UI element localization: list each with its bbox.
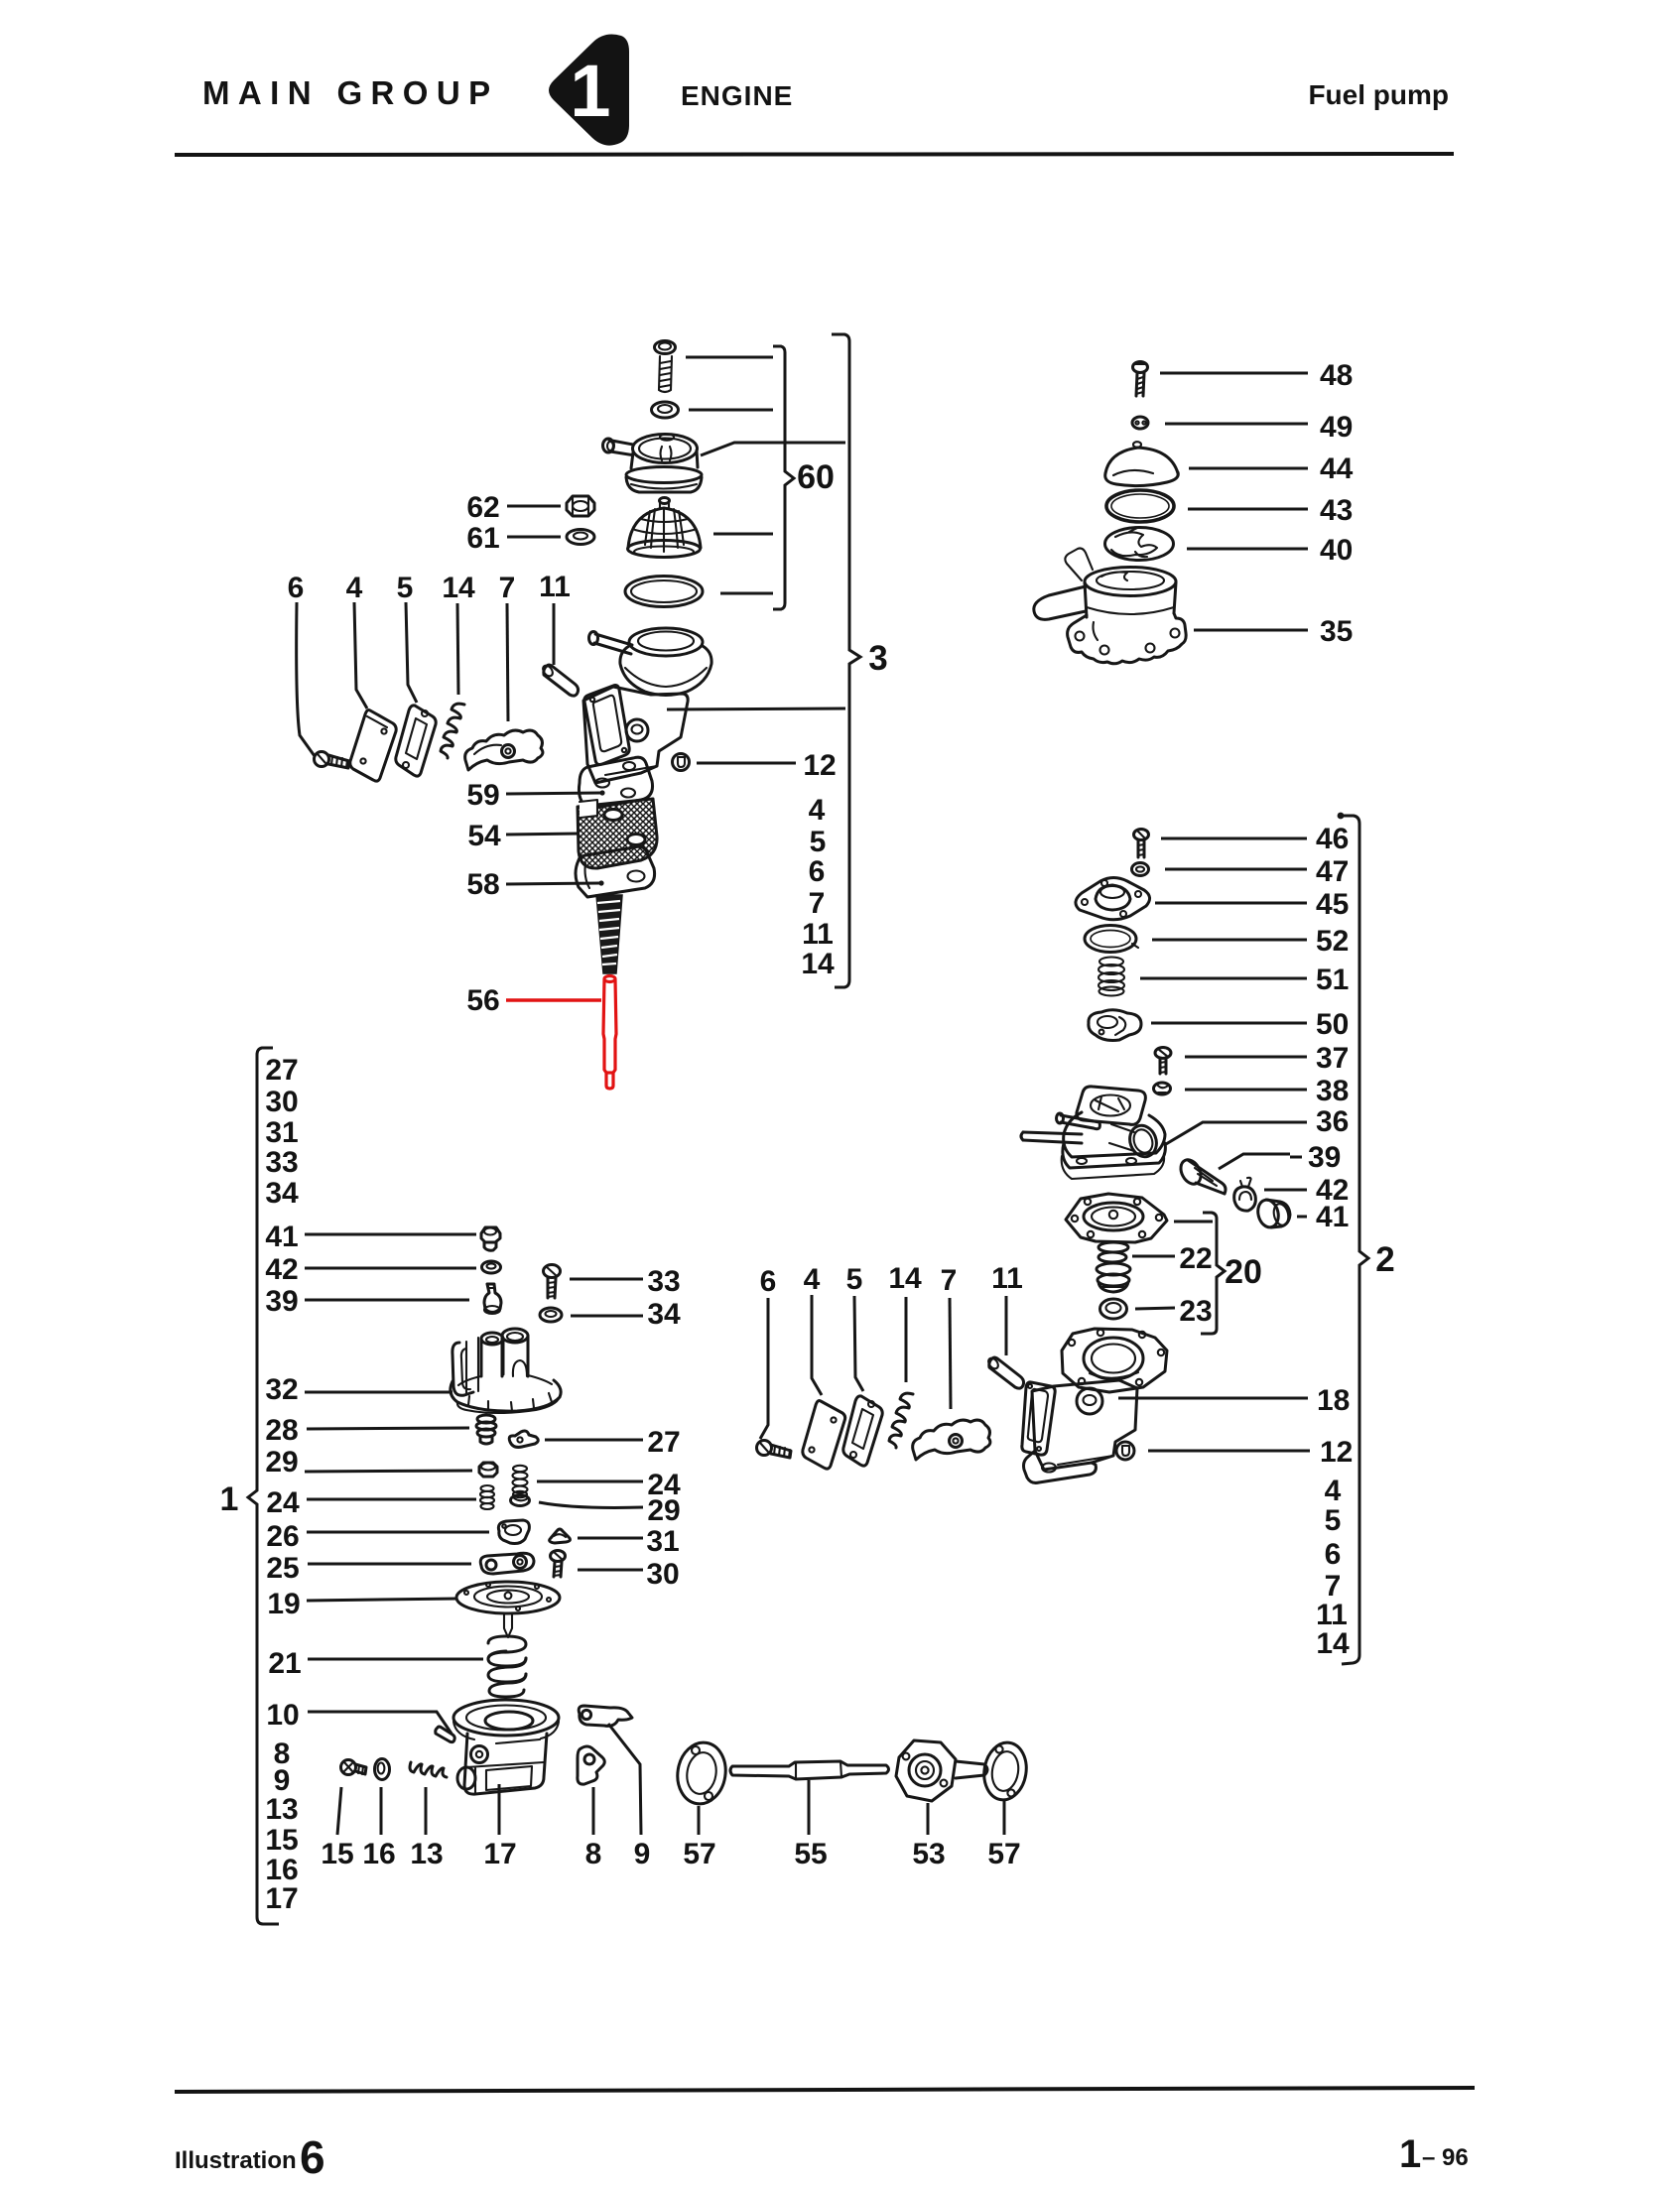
leader 41 bbox=[305, 1233, 476, 1236]
svg-text:1: 1 bbox=[570, 50, 610, 132]
svg-text:41: 41 bbox=[265, 1221, 298, 1253]
svg-text:35: 35 bbox=[1320, 615, 1353, 648]
svg-text:56: 56 bbox=[466, 984, 499, 1017]
svg-text:38: 38 bbox=[1316, 1075, 1349, 1107]
lower pump body 18 bbox=[1032, 1380, 1137, 1470]
leader 42 bbox=[305, 1267, 476, 1270]
leader 22 bbox=[1132, 1255, 1175, 1258]
leader 57l bbox=[698, 1806, 701, 1835]
svg-text:53: 53 bbox=[912, 1838, 945, 1870]
O-ring 43 bbox=[1106, 490, 1174, 522]
svg-text:25: 25 bbox=[266, 1552, 299, 1585]
svg-text:15: 15 bbox=[321, 1838, 353, 1870]
svg-text:59: 59 bbox=[466, 779, 499, 812]
svg-text:44: 44 bbox=[1320, 452, 1354, 485]
header: group 1 badge bbox=[549, 35, 629, 146]
lever 8 bbox=[578, 1746, 604, 1784]
leader 28 bbox=[307, 1428, 469, 1429]
screw 15 bbox=[341, 1760, 367, 1775]
leader washer bbox=[689, 409, 773, 412]
plate 4b bbox=[803, 1401, 845, 1470]
svg-text:28: 28 bbox=[265, 1414, 298, 1447]
washer 42 bbox=[482, 1261, 501, 1273]
leader 12 bbox=[697, 762, 796, 765]
leader 34 bbox=[571, 1315, 643, 1318]
svg-text:30: 30 bbox=[265, 1086, 298, 1118]
svg-text:36: 36 bbox=[1316, 1105, 1349, 1138]
pump upper housing 36 bbox=[1021, 1087, 1165, 1179]
leader 10 bbox=[308, 1712, 452, 1734]
leader 55 bbox=[808, 1780, 811, 1835]
svg-text:– 96: – 96 bbox=[1422, 2144, 1469, 2171]
leader 16 bbox=[380, 1787, 383, 1835]
leader 41 bbox=[1297, 1216, 1307, 1219]
svg-text:29: 29 bbox=[647, 1494, 680, 1527]
svg-text:4: 4 bbox=[1325, 1475, 1342, 1507]
hex flange (lower valve housing top) bbox=[1062, 1329, 1167, 1392]
bracket group 2 bbox=[1338, 813, 1345, 820]
washer 61 bbox=[567, 530, 594, 545]
leader 62 bbox=[507, 505, 561, 508]
leader 24r bbox=[537, 1480, 643, 1483]
svg-text:54: 54 bbox=[467, 820, 501, 852]
plug 41 bbox=[1255, 1198, 1291, 1229]
leader screw bbox=[686, 356, 773, 359]
svg-text:4: 4 bbox=[804, 1263, 821, 1296]
svg-text:6: 6 bbox=[809, 855, 826, 888]
footer rule bbox=[175, 2088, 1475, 2092]
svg-text:2: 2 bbox=[1375, 1240, 1394, 1279]
leader 4b bbox=[812, 1295, 822, 1395]
filter screen dome bbox=[628, 498, 702, 558]
svg-text:17: 17 bbox=[483, 1838, 516, 1870]
svg-text:6: 6 bbox=[300, 2131, 325, 2183]
svg-text:10: 10 bbox=[266, 1699, 299, 1732]
spring 21 bbox=[488, 1636, 526, 1697]
svg-text:7: 7 bbox=[809, 887, 826, 920]
svg-text:23: 23 bbox=[1179, 1295, 1212, 1328]
leader 18 bbox=[1118, 1397, 1308, 1400]
svg-text:MAIN GROUP: MAIN GROUP bbox=[202, 74, 499, 111]
leader 52 bbox=[1152, 939, 1307, 942]
leader 39 bbox=[305, 1299, 469, 1302]
plug 41 bbox=[481, 1227, 500, 1250]
svg-text:5: 5 bbox=[1325, 1504, 1342, 1537]
leader 7b bbox=[950, 1298, 951, 1409]
bolt 48 bbox=[1133, 362, 1148, 397]
svg-text:Fuel pump: Fuel pump bbox=[1308, 79, 1449, 110]
bracket group 20 bbox=[1201, 1213, 1225, 1334]
leader 35 bbox=[1194, 629, 1308, 632]
leader 12 bbox=[1148, 1450, 1310, 1453]
lower cup (upper pump chamber) bbox=[589, 628, 712, 696]
leader 61 bbox=[507, 536, 561, 539]
washer 23 bbox=[1100, 1299, 1127, 1319]
leader O-ring bbox=[720, 592, 773, 595]
svg-text:60: 60 bbox=[797, 458, 835, 496]
screw 46 bbox=[1134, 830, 1149, 858]
leader 8 bbox=[592, 1787, 595, 1835]
pump cover 32 bbox=[451, 1329, 561, 1413]
valve plate 50 bbox=[1089, 1010, 1141, 1041]
svg-text:43: 43 bbox=[1320, 494, 1353, 527]
svg-text:7: 7 bbox=[499, 572, 516, 604]
svg-text:39: 39 bbox=[1308, 1141, 1341, 1174]
svg-text:18: 18 bbox=[1317, 1384, 1350, 1417]
cap 29 (right) bbox=[511, 1495, 530, 1506]
flange 59 bbox=[579, 757, 652, 809]
hex plug 29 bbox=[479, 1463, 497, 1477]
svg-text:57: 57 bbox=[987, 1838, 1020, 1870]
svg-text:4: 4 bbox=[809, 794, 826, 827]
top cover cap (fuel pump upper cover) bbox=[603, 434, 703, 492]
svg-text:17: 17 bbox=[265, 1882, 298, 1915]
rocker lever 7 bbox=[465, 730, 543, 770]
svg-text:15: 15 bbox=[265, 1824, 298, 1857]
leader 59 bbox=[506, 793, 601, 794]
leader 43 bbox=[1188, 508, 1308, 511]
leader 48 bbox=[1160, 372, 1308, 375]
pin 11b bbox=[986, 1356, 1023, 1388]
svg-text:45: 45 bbox=[1316, 888, 1349, 921]
svg-text:24: 24 bbox=[266, 1486, 300, 1519]
leader 5b bbox=[854, 1296, 863, 1391]
svg-text:37: 37 bbox=[1316, 1042, 1349, 1075]
spring 24 (right) bbox=[513, 1466, 528, 1497]
bracket group 1 bbox=[248, 1048, 279, 1924]
grommet 12 bbox=[673, 754, 690, 771]
screw 37 bbox=[1155, 1048, 1171, 1075]
svg-text:3: 3 bbox=[868, 639, 887, 678]
svg-text:14: 14 bbox=[801, 948, 835, 980]
leader filter bbox=[713, 533, 773, 536]
gasket 57 (right) bbox=[980, 1739, 1031, 1803]
svg-text:29: 29 bbox=[265, 1446, 298, 1479]
svg-text:50: 50 bbox=[1316, 1008, 1349, 1041]
svg-text:27: 27 bbox=[265, 1054, 298, 1087]
lower body 17 top flange bbox=[453, 1700, 559, 1739]
bottom flange of 18 bbox=[1024, 1451, 1097, 1482]
leader 14 bbox=[457, 603, 458, 695]
diaphragm (group 20) bbox=[1066, 1194, 1167, 1242]
leader 29 bbox=[305, 1471, 472, 1472]
screw 33 bbox=[544, 1265, 561, 1299]
svg-text:46: 46 bbox=[1316, 823, 1349, 855]
spring 24 (left) bbox=[480, 1485, 494, 1509]
leader 49 bbox=[1165, 423, 1308, 426]
pin 10 bbox=[436, 1727, 455, 1742]
bracket group 3 bbox=[832, 334, 860, 987]
leader 44 bbox=[1189, 467, 1308, 470]
leader 37 bbox=[1185, 1056, 1307, 1059]
nut 49 bbox=[1132, 417, 1148, 429]
grommet 12 (right) bbox=[1116, 1442, 1134, 1460]
mounting plate of body bbox=[584, 686, 629, 765]
svg-text:41: 41 bbox=[1316, 1201, 1349, 1233]
leader 56 (red) bbox=[506, 998, 601, 1001]
leader 25 bbox=[308, 1563, 471, 1566]
leader 51 bbox=[1140, 977, 1307, 980]
leader 23 bbox=[1135, 1308, 1175, 1309]
leader 7 bbox=[507, 603, 508, 721]
svg-text:33: 33 bbox=[647, 1265, 680, 1298]
spring 13 bbox=[410, 1762, 447, 1777]
washer 47 bbox=[1132, 863, 1149, 876]
leader 6b bbox=[760, 1298, 768, 1439]
leader diaphragm to bracket 20 bbox=[1174, 1221, 1213, 1223]
bracket group 60 bbox=[773, 346, 794, 609]
ring 16 bbox=[375, 1759, 390, 1780]
leader 54 bbox=[506, 834, 580, 835]
insulator block 54 (cross-hatched) bbox=[578, 799, 657, 868]
screw (group 60 top) bbox=[655, 341, 676, 393]
svg-text:21: 21 bbox=[268, 1647, 301, 1680]
leader 29r bbox=[539, 1502, 643, 1507]
pump upper body bbox=[583, 687, 688, 783]
svg-text:6: 6 bbox=[760, 1265, 777, 1298]
inlet funnel 39 bbox=[1177, 1156, 1226, 1194]
leader 31 bbox=[578, 1537, 643, 1540]
svg-text:20: 20 bbox=[1225, 1253, 1262, 1291]
svg-text:13: 13 bbox=[265, 1793, 298, 1826]
leader 53 bbox=[927, 1803, 930, 1835]
svg-text:34: 34 bbox=[265, 1177, 299, 1210]
leader 17 bbox=[498, 1784, 501, 1835]
plate 5 bbox=[396, 706, 436, 776]
rocker plate 25 bbox=[480, 1553, 534, 1574]
svg-text:8: 8 bbox=[585, 1838, 602, 1870]
leader 27 bbox=[545, 1439, 643, 1442]
screw 6 bbox=[315, 752, 350, 769]
svg-text:39: 39 bbox=[265, 1285, 298, 1318]
svg-text:1: 1 bbox=[1399, 2132, 1421, 2176]
svg-text:19: 19 bbox=[267, 1588, 300, 1620]
leader 6 bbox=[297, 602, 315, 756]
flange 53 bbox=[896, 1740, 987, 1801]
leader 32 bbox=[305, 1391, 452, 1394]
leader 58 bbox=[506, 883, 600, 884]
svg-text:14: 14 bbox=[1316, 1627, 1350, 1660]
svg-text:40: 40 bbox=[1320, 534, 1353, 567]
leader 36 bbox=[1166, 1122, 1307, 1144]
svg-text:57: 57 bbox=[683, 1838, 715, 1870]
svg-text:12: 12 bbox=[1320, 1436, 1353, 1469]
svg-text:61: 61 bbox=[466, 522, 499, 555]
diaphragm cap 44 bbox=[1105, 442, 1179, 485]
svg-text:6: 6 bbox=[288, 572, 305, 604]
leader 9 bbox=[608, 1724, 641, 1835]
svg-text:5: 5 bbox=[397, 572, 414, 604]
svg-text:Illustration: Illustration bbox=[175, 2147, 297, 2174]
spring 51 bbox=[1098, 958, 1124, 996]
pump housing 35 bbox=[1034, 549, 1186, 664]
clamp 42 bbox=[1234, 1178, 1256, 1211]
threaded shank (dark) bbox=[596, 895, 622, 973]
leader 4 bbox=[354, 602, 367, 708]
svg-text:49: 49 bbox=[1320, 411, 1353, 444]
spring 14 bbox=[441, 704, 464, 758]
nut 38 bbox=[1154, 1083, 1171, 1094]
valve cover 45 bbox=[1076, 878, 1150, 920]
svg-text:5: 5 bbox=[846, 1263, 863, 1296]
O-ring (group 60) bbox=[625, 577, 703, 607]
svg-text:16: 16 bbox=[362, 1838, 395, 1870]
leader 14b bbox=[905, 1297, 908, 1382]
plate 5b bbox=[843, 1396, 882, 1466]
header rule bbox=[175, 154, 1454, 155]
leader 45 bbox=[1155, 902, 1307, 905]
valve insert 28 bbox=[476, 1415, 496, 1444]
svg-text:11: 11 bbox=[539, 571, 571, 603]
leader pump body to bracket 3 bbox=[667, 708, 845, 709]
svg-text:1: 1 bbox=[220, 1480, 239, 1518]
pin 11 bbox=[541, 664, 578, 696]
svg-text:48: 48 bbox=[1320, 359, 1353, 392]
svg-text:33: 33 bbox=[265, 1146, 298, 1179]
gasket 57 (left) bbox=[673, 1739, 729, 1808]
pushrod 56 (red part) bbox=[603, 976, 616, 1090]
leader 38 bbox=[1185, 1089, 1307, 1092]
hook lever 9 bbox=[579, 1706, 632, 1726]
svg-text:26: 26 bbox=[266, 1520, 299, 1553]
leader 24l bbox=[307, 1498, 476, 1501]
leader 5 bbox=[406, 602, 417, 703]
gasket 58 bbox=[576, 846, 655, 897]
washer (group 60) bbox=[652, 402, 679, 418]
leader 26 bbox=[307, 1531, 489, 1534]
svg-text:31: 31 bbox=[265, 1116, 298, 1149]
svg-text:30: 30 bbox=[646, 1558, 679, 1591]
svg-text:62: 62 bbox=[466, 491, 499, 524]
rocker lever 7b bbox=[913, 1420, 990, 1460]
leader cover to bracket 3 bbox=[701, 443, 845, 455]
spring seat 26 bbox=[498, 1520, 529, 1544]
svg-text:22: 22 bbox=[1179, 1242, 1212, 1275]
clip 31 (right) bbox=[550, 1529, 571, 1543]
screw 6b bbox=[757, 1441, 792, 1459]
plate 4 bbox=[350, 710, 396, 782]
svg-text:42: 42 bbox=[265, 1253, 298, 1286]
mounting plate of body 18 bbox=[1022, 1382, 1055, 1455]
leader 40 bbox=[1187, 548, 1308, 551]
svg-text:6: 6 bbox=[1325, 1538, 1342, 1571]
svg-text:ENGINE: ENGINE bbox=[681, 80, 793, 111]
svg-text:32: 32 bbox=[265, 1373, 298, 1406]
svg-text:12: 12 bbox=[803, 749, 836, 782]
leader 13 bbox=[425, 1787, 428, 1835]
leader 39 bbox=[1219, 1154, 1290, 1169]
spring 14b bbox=[889, 1393, 913, 1448]
nut 62 bbox=[567, 496, 594, 516]
leader 42 bbox=[1264, 1189, 1307, 1192]
svg-text:13: 13 bbox=[410, 1838, 443, 1870]
svg-text:52: 52 bbox=[1316, 925, 1349, 958]
svg-text:5: 5 bbox=[810, 826, 827, 858]
leader 46 bbox=[1161, 837, 1307, 840]
bellows 22 bbox=[1097, 1242, 1130, 1292]
svg-text:55: 55 bbox=[794, 1838, 827, 1870]
svg-text:14: 14 bbox=[888, 1262, 922, 1295]
leader 21 bbox=[308, 1658, 483, 1661]
leader 50 bbox=[1151, 1022, 1307, 1025]
push rod 55 bbox=[730, 1761, 889, 1779]
svg-text:14: 14 bbox=[442, 572, 475, 604]
leader 15 bbox=[337, 1787, 341, 1835]
gasket 52 bbox=[1085, 926, 1138, 953]
svg-text:58: 58 bbox=[466, 868, 499, 901]
svg-text:9: 9 bbox=[634, 1838, 651, 1870]
leader 19 bbox=[307, 1599, 457, 1601]
svg-text:4: 4 bbox=[346, 572, 363, 604]
leader 30 bbox=[578, 1569, 643, 1572]
leader 33 bbox=[570, 1278, 643, 1281]
lower body 17 bbox=[457, 1734, 547, 1794]
leader 11b bbox=[1005, 1296, 1008, 1355]
svg-text:51: 51 bbox=[1316, 964, 1349, 996]
svg-text:11: 11 bbox=[991, 1262, 1023, 1295]
leader 47 bbox=[1165, 868, 1307, 871]
screw 30 (right) bbox=[551, 1551, 566, 1578]
diaphragm 19 bbox=[456, 1582, 560, 1637]
svg-text:7: 7 bbox=[941, 1264, 958, 1297]
svg-text:47: 47 bbox=[1316, 855, 1349, 888]
valve disc 40 bbox=[1105, 528, 1174, 561]
washer 34 bbox=[540, 1308, 562, 1322]
svg-text:11: 11 bbox=[802, 918, 834, 951]
retainer 27 bbox=[509, 1431, 538, 1447]
cone valve 39 bbox=[484, 1284, 501, 1314]
svg-text:27: 27 bbox=[647, 1426, 680, 1459]
svg-text:31: 31 bbox=[646, 1525, 679, 1558]
leader 11 bbox=[553, 603, 556, 665]
svg-text:34: 34 bbox=[647, 1298, 681, 1331]
leader 57r bbox=[1003, 1801, 1006, 1835]
